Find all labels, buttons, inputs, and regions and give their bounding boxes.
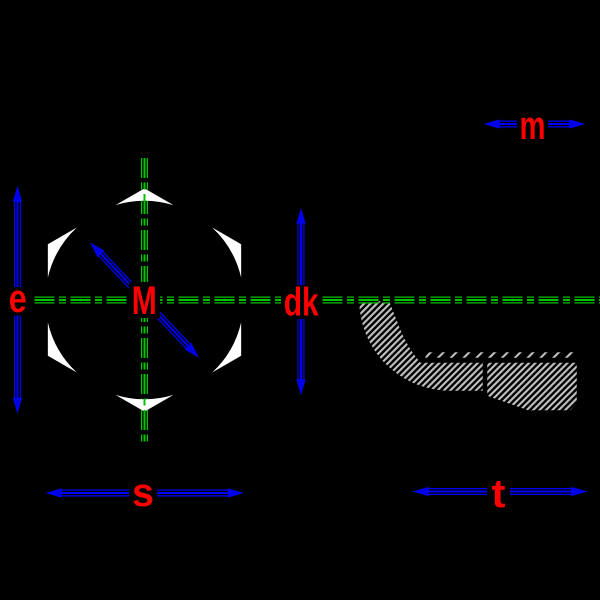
svg-text:m: m xyxy=(520,104,546,148)
svg-text:dk: dk xyxy=(284,281,320,325)
svg-text:t: t xyxy=(492,472,506,516)
svg-text:e: e xyxy=(9,277,27,321)
svg-text:M: M xyxy=(132,279,157,323)
svg-text:s: s xyxy=(132,471,154,515)
